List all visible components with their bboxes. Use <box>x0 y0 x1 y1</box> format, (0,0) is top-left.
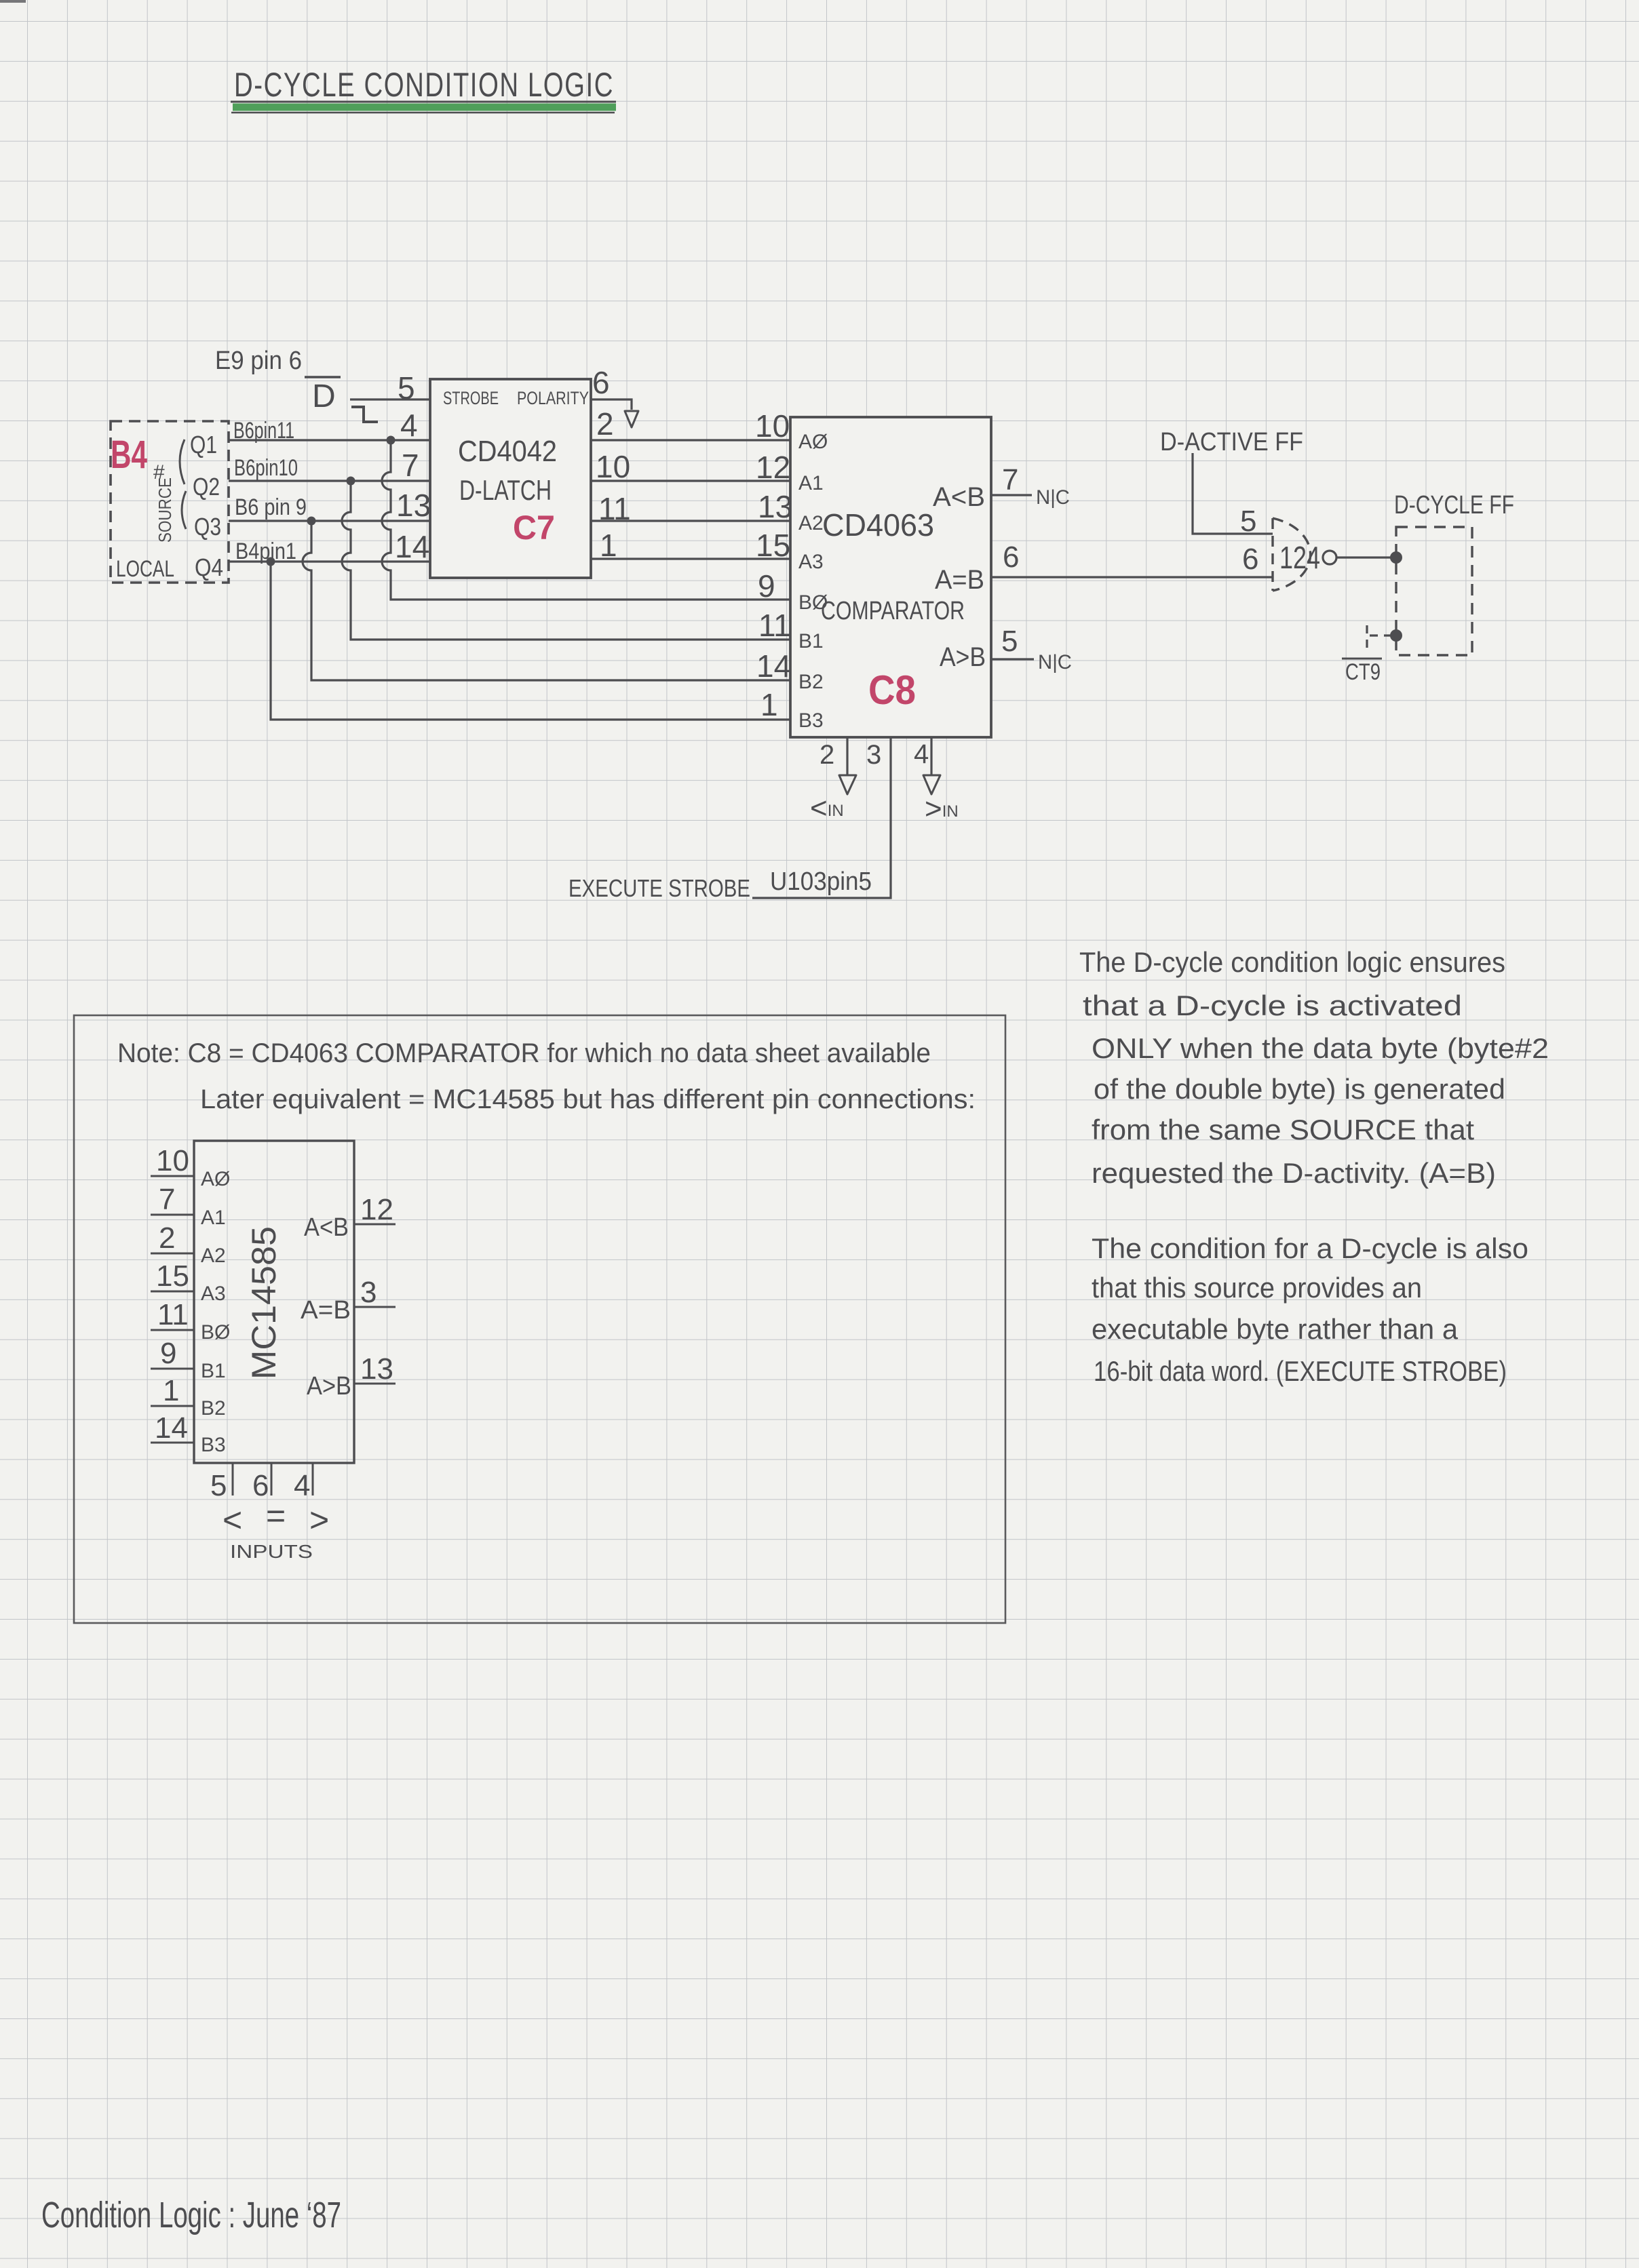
svg-text:Condition Logic : June ‘87: Condition Logic : June ‘87 <box>41 2195 341 2235</box>
svg-text:4: 4 <box>914 739 929 769</box>
junction node Q1 <box>387 436 396 445</box>
svg-text:11: 11 <box>758 608 791 643</box>
register B4 <box>111 421 229 583</box>
svg-text:14: 14 <box>155 1411 188 1445</box>
svg-text:9: 9 <box>160 1337 176 1370</box>
svg-text:of the double byte) is generat: of the double byte) is generated <box>1094 1073 1505 1105</box>
pin number 1 (MC B2) <box>151 1374 194 1407</box>
wire C8 pin 4 stub with down arrow <box>923 737 940 794</box>
svg-text:4: 4 <box>294 1469 310 1502</box>
wire C7 pin 1 to C8 A3 <box>591 558 790 560</box>
svg-text:12: 12 <box>756 450 790 485</box>
svg-text:executable byte rather than a: executable byte rather than a <box>1092 1313 1459 1345</box>
label lt = gt inputs <box>223 1497 329 1562</box>
svg-text:B2: B2 <box>798 671 824 693</box>
svg-text:13: 13 <box>360 1352 393 1386</box>
svg-text:2: 2 <box>596 406 614 442</box>
svg-text:requested the D-activity. (A=B: requested the D-activity. (A=B) <box>1092 1157 1496 1189</box>
wire CT9 stub (dashed) <box>1367 625 1392 653</box>
flip-flop D-CYCLE FF (dashed box) <box>1394 491 1514 655</box>
svg-text:A2: A2 <box>798 512 824 534</box>
svg-text:>: > <box>309 1501 329 1539</box>
svg-text:A>B: A>B <box>940 642 986 672</box>
svg-text:E9 pin 6: E9 pin 6 <box>215 347 302 375</box>
svg-text:AØ: AØ <box>201 1168 230 1190</box>
pin number 9 (MC B1) <box>151 1337 194 1370</box>
falling-edge pulse symbol <box>351 407 378 422</box>
svg-text:POLARITY: POLARITY <box>517 388 589 408</box>
svg-text:6: 6 <box>1003 541 1019 574</box>
note box <box>74 1015 1005 1623</box>
svg-text:The condition for a D-cycle is: The condition for a D-cycle is also <box>1092 1232 1528 1264</box>
svg-text:SOURCE: SOURCE <box>155 477 175 543</box>
svg-text:14: 14 <box>756 648 791 684</box>
wire Q1 to C7 pin 4 <box>229 439 430 441</box>
svg-text:COMPARATOR: COMPARATOR <box>821 597 965 625</box>
svg-text:D-CYCLE FF: D-CYCLE FF <box>1394 491 1514 520</box>
svg-text:B6pin10: B6pin10 <box>234 455 298 481</box>
wire MC pin 4 stub <box>312 1463 314 1495</box>
svg-text:1: 1 <box>600 528 617 563</box>
comparator C8 CD4063 <box>790 417 991 737</box>
svg-text:A1: A1 <box>201 1207 226 1229</box>
net label CT9 <box>1342 659 1382 685</box>
svg-text:124: 124 <box>1279 540 1320 575</box>
svg-text:The D-cycle condition logic en: The D-cycle condition logic ensures <box>1079 946 1505 978</box>
node CT9 junction <box>1390 629 1402 642</box>
svg-text:B2: B2 <box>201 1397 226 1420</box>
svg-text:D: D <box>312 378 336 414</box>
wire Q2 branch to C8 B1 with crossover hops <box>342 481 790 640</box>
svg-text:Note: C8 = CD4063 COMPARATOR f: Note: C8 = CD4063 COMPARATOR for which n… <box>117 1038 931 1068</box>
svg-text:<: < <box>223 1501 242 1539</box>
svg-text:3: 3 <box>360 1276 377 1309</box>
pin number 10 (MC A0) <box>151 1144 194 1177</box>
svg-text:6: 6 <box>592 365 610 400</box>
svg-text:A2: A2 <box>201 1245 226 1267</box>
pin number 11 (MC B0) <box>151 1298 194 1331</box>
svg-text:10: 10 <box>755 408 790 444</box>
svg-text:N|C: N|C <box>1036 486 1070 509</box>
svg-text:B6 pin 9: B6 pin 9 <box>235 494 307 520</box>
svg-text:A>B: A>B <box>307 1372 351 1401</box>
svg-text:3: 3 <box>866 740 881 770</box>
svg-text:that a D-cycle is activated: that a D-cycle is activated <box>1083 990 1462 1021</box>
svg-text:6: 6 <box>1242 543 1258 576</box>
svg-text:Q3: Q3 <box>194 513 221 541</box>
svg-text:CD4042: CD4042 <box>458 435 557 468</box>
svg-text:1: 1 <box>163 1374 179 1407</box>
wire Q4 branch to C8 B3 <box>271 562 790 720</box>
wire A eq B to gate pin 6 <box>991 576 1273 578</box>
svg-text:10: 10 <box>596 449 630 484</box>
svg-text:13: 13 <box>396 488 431 523</box>
pin number 15 (MC A3) <box>151 1259 194 1293</box>
svg-text:AØ: AØ <box>798 431 828 453</box>
svg-text:C8: C8 <box>868 667 916 713</box>
svg-text:7: 7 <box>1002 463 1018 496</box>
title D-CYCLE CONDITION LOGIC <box>231 66 616 113</box>
wire Q2 to C7 pin 7 <box>229 480 430 482</box>
svg-text:A3: A3 <box>201 1283 226 1305</box>
svg-text:from the same SOURCE that: from the same SOURCE that <box>1092 1114 1474 1146</box>
pin number 2 (MC A2) <box>151 1221 194 1255</box>
wire D-ACTIVE FF to gate pin 5 <box>1193 453 1273 534</box>
svg-text:N|C: N|C <box>1038 651 1072 673</box>
wire Q4 to C7 pin 14 <box>229 560 430 562</box>
svg-text:C7: C7 <box>513 509 555 547</box>
pin number 3 with A eq B stub <box>354 1276 396 1309</box>
svg-text:MC14585: MC14585 <box>245 1226 283 1380</box>
svg-text:16-bit data word. (EXECUTE STR: 16-bit data word. (EXECUTE STROBE) <box>1094 1355 1507 1387</box>
wire gate output to D-CYCLE FF <box>1337 556 1396 558</box>
latch C7 CD4042 <box>430 379 591 578</box>
wire Q3 to C7 pin 13 <box>229 520 430 522</box>
svg-text:A<B: A<B <box>304 1213 349 1242</box>
junction node Q4 <box>267 558 275 566</box>
pin number 13 with A gt B stub <box>354 1352 396 1386</box>
svg-text:Q2: Q2 <box>193 473 220 501</box>
wire D-bar to C7 pin 5 <box>350 398 430 400</box>
svg-text:7: 7 <box>159 1183 175 1216</box>
svg-text:13: 13 <box>758 489 792 524</box>
svg-text:10: 10 <box>156 1144 189 1177</box>
svg-text:CT9: CT9 <box>1345 659 1381 685</box>
wire Q1 branch to C8 B0 with crossover hops <box>382 440 790 600</box>
svg-text:12: 12 <box>360 1193 393 1226</box>
svg-text:A3: A3 <box>798 551 824 573</box>
svg-text:INPUTS: INPUTS <box>230 1541 313 1562</box>
svg-text:A=B: A=B <box>301 1296 351 1325</box>
svg-text:B1: B1 <box>798 630 824 652</box>
svg-text:D-CYCLE CONDITION LOGIC: D-CYCLE CONDITION LOGIC <box>234 66 614 104</box>
svg-text:15: 15 <box>156 1259 189 1293</box>
svg-text:5: 5 <box>210 1469 227 1502</box>
wire A lt B to N/C <box>991 494 1032 496</box>
svg-text:11: 11 <box>157 1298 189 1331</box>
svg-text:BØ: BØ <box>201 1321 230 1344</box>
svg-text:7: 7 <box>402 448 419 483</box>
svg-text:4: 4 <box>400 408 418 443</box>
svg-text:U103pin5: U103pin5 <box>770 867 872 896</box>
svg-text:1: 1 <box>760 687 778 722</box>
wire MC pin 6 stub <box>271 1463 273 1495</box>
wire C8 pin 3 to EXECUTE STROBE <box>752 737 891 898</box>
node D-bar (strobe input) <box>305 377 341 414</box>
wire Q3 branch to C8 B2 with crossover hop <box>303 521 790 680</box>
svg-text:ONLY when the data byte (byte#: ONLY when the data byte (byte#2 <box>1092 1032 1549 1064</box>
svg-text:B1: B1 <box>201 1360 226 1382</box>
svg-text:=: = <box>266 1497 286 1535</box>
svg-text:14: 14 <box>395 529 429 564</box>
svg-text:D-LATCH: D-LATCH <box>459 474 552 506</box>
wire MC pin 5 stub <box>232 1463 234 1495</box>
svg-text:2: 2 <box>819 740 834 770</box>
svg-text:9: 9 <box>758 568 775 604</box>
svg-text:2: 2 <box>159 1221 175 1255</box>
junction node Q3 <box>307 517 316 526</box>
wire C7 pin 10 to C8 A1 <box>591 480 790 482</box>
svg-text:B3: B3 <box>798 709 824 732</box>
svg-text:EXECUTE STROBE: EXECUTE STROBE <box>568 874 750 902</box>
svg-text:5: 5 <box>398 370 415 406</box>
pin number 14 (MC B3) <box>151 1411 194 1445</box>
svg-text:5: 5 <box>1001 625 1018 658</box>
svg-text:5: 5 <box>1240 505 1256 538</box>
gate U124 (dashed AND with bubble) <box>1273 518 1336 591</box>
pin number 12 with A lt B stub <box>354 1193 396 1226</box>
svg-text:Later equivalent = MC14585 but: Later equivalent = MC14585 but has diffe… <box>200 1084 976 1114</box>
wire C7 pin 6 stub with down arrow <box>591 399 638 427</box>
svg-text:A<B: A<B <box>933 482 985 512</box>
wire C7 pin 11 to C8 A2 <box>591 520 790 522</box>
comparator MC14585 (note detail) <box>194 1141 354 1463</box>
svg-text:Q4: Q4 <box>195 553 223 581</box>
svg-text:B3: B3 <box>201 1434 226 1456</box>
svg-text:LOCAL: LOCAL <box>116 556 174 582</box>
junction node Q2 <box>347 477 355 486</box>
svg-text:15: 15 <box>756 528 790 563</box>
wire C8 pin 2 stub with down arrow <box>839 737 856 794</box>
svg-text:that this source provides an: that this source provides an <box>1092 1272 1422 1304</box>
wire C7 pin 2 to C8 A0 <box>591 439 790 441</box>
svg-text:CD4063: CD4063 <box>822 507 934 543</box>
pin number 7 (MC A1) <box>151 1183 194 1216</box>
svg-text:D-ACTIVE FF: D-ACTIVE FF <box>1160 428 1303 456</box>
svg-text:A1: A1 <box>798 472 824 494</box>
paragraph 2 <box>1092 1232 1528 1387</box>
node gate output junction <box>1390 551 1402 564</box>
svg-text:A=B: A=B <box>935 565 984 595</box>
svg-text:STROBE: STROBE <box>443 388 499 408</box>
paragraph 1 <box>1079 946 1549 1189</box>
svg-text:Q1: Q1 <box>190 431 217 458</box>
wire A gt B to N/C <box>991 658 1034 660</box>
svg-text:B4pin1: B4pin1 <box>235 539 296 564</box>
svg-text:B4: B4 <box>111 433 147 477</box>
